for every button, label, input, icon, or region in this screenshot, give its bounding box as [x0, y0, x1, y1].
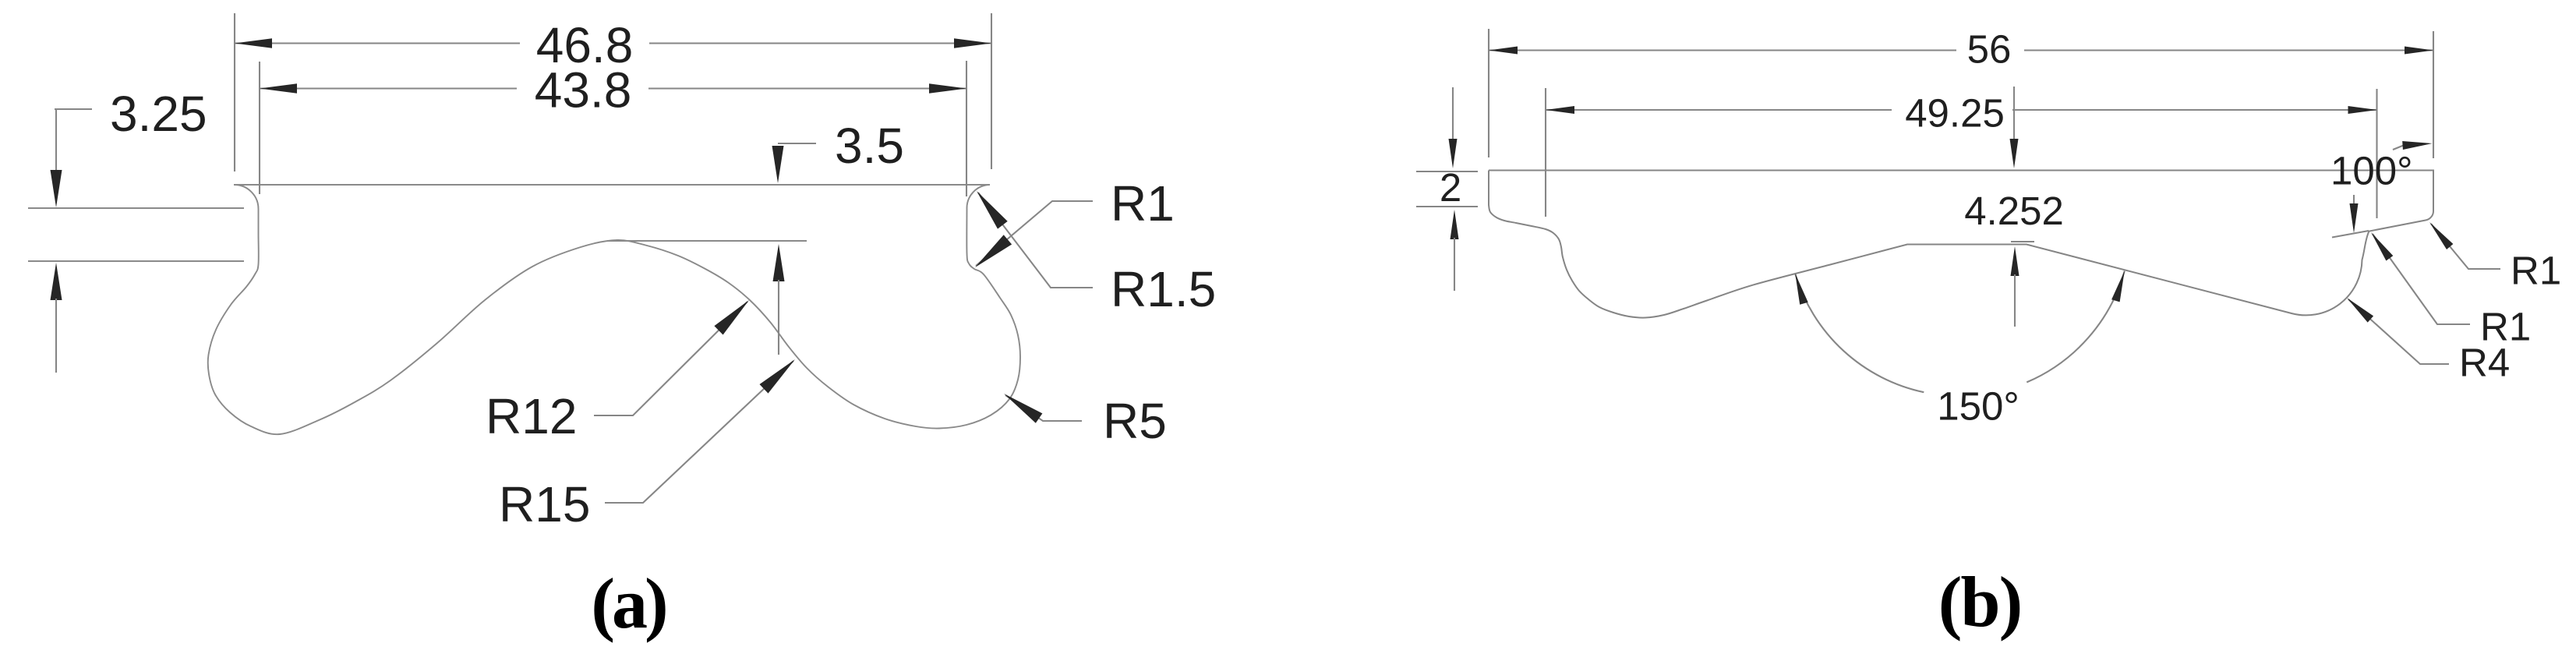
dim 43.8 right extension line	[966, 61, 967, 196]
dim 46.8 dimension line left segment	[235, 42, 520, 44]
dim 2 upper tick line	[1416, 171, 1478, 172]
dim 56 left extension line	[1488, 29, 1489, 157]
leader R12 arrowhead	[714, 300, 749, 335]
leader R1 (a) polyline	[976, 201, 1093, 266]
dim 56 right arrowhead	[2405, 47, 2433, 55]
svg-text:56: 56	[1967, 27, 2012, 72]
svg-text:R1: R1	[2511, 249, 2561, 293]
figure (a): belt tooth profile outline	[208, 185, 1020, 434]
svg-text:2: 2	[1440, 165, 1461, 210]
svg-text:(b): (b)	[1938, 562, 2021, 642]
leader R1.5 (a) polyline	[978, 193, 1093, 288]
leader R5 polyline	[1005, 395, 1082, 421]
leader R1 upper (b) polyline	[2431, 224, 2500, 269]
dim 49.25 left arrowhead	[1546, 106, 1574, 114]
figure (a): tooth crest reference line for 3.5 depth	[607, 240, 807, 242]
leader R12 polyline	[594, 302, 747, 415]
dim 43.8 left arrowhead	[260, 83, 297, 93]
leader R4 arrowhead	[2347, 298, 2373, 323]
dim 4.252 upper stem	[2013, 87, 2015, 142]
dim 43.8 right arrowhead	[929, 83, 966, 93]
leader R1 (a) arrowhead	[975, 235, 1012, 267]
angle 150 arc left segment	[1795, 274, 1924, 392]
angle 100 leader	[2393, 145, 2405, 150]
figure (b): chamfer extension tick	[2332, 231, 2369, 238]
dim 46.8 left extension line	[234, 13, 235, 171]
svg-text:49.25: 49.25	[1905, 91, 2005, 136]
crest flat reference tick (b)	[2011, 241, 2034, 242]
leader R15 polyline	[605, 361, 793, 503]
svg-text:R12: R12	[486, 388, 577, 444]
dim 49.25 right arrowhead	[2348, 106, 2377, 114]
dim 56 dimension line right segment	[2024, 49, 2433, 51]
dim 46.8 dimension line right segment	[649, 42, 991, 44]
dim 3.5 lower arrowhead (up)	[773, 244, 785, 281]
dim 3.25 upper stem	[55, 109, 57, 173]
dim 43.8 left extension line	[259, 62, 260, 194]
dim 46.8 right arrowhead	[954, 38, 991, 48]
svg-text:150°: 150°	[1937, 384, 2019, 429]
dim 56 left arrowhead	[1489, 47, 1518, 55]
dim 3.5 upper arrowhead (down)	[772, 146, 784, 183]
leader R5 arrowhead	[1004, 394, 1042, 423]
dim 56 dimension line left segment	[1489, 49, 1956, 51]
dim 4.252 upper arrowhead (down)	[2010, 139, 2019, 168]
dim 2 upper arrowhead (down)	[1449, 139, 1458, 168]
figure (b): tread rib profile outline	[1489, 171, 2433, 318]
svg-text:4.252: 4.252	[1964, 189, 2064, 233]
dim 49.25 dimension line right segment	[2012, 109, 2377, 111]
svg-text:3.5: 3.5	[835, 118, 904, 174]
chamfer reference down arrow stem (b)	[2353, 195, 2355, 204]
svg-text:100°: 100°	[2330, 149, 2413, 193]
dim 43.8 dimension line left segment	[260, 87, 517, 89]
svg-text:R5: R5	[1103, 393, 1167, 449]
svg-text:R1: R1	[1111, 175, 1175, 232]
leader R1 upper (b) arrowhead	[2429, 222, 2453, 249]
dim 49.25 left extension line	[1545, 88, 1546, 217]
figure (a): backing band top line (section break)	[28, 207, 244, 209]
dim 4.252 lower stem	[2014, 274, 2016, 327]
dim 2 lower tick line	[1416, 206, 1478, 207]
chamfer reference down arrowhead (b)	[2350, 203, 2359, 233]
dim 43.8 dimension line right segment	[648, 87, 966, 89]
dim 49.25 dimension line left segment	[1546, 109, 1892, 111]
dim 3.25 lower arrowhead (up)	[51, 263, 62, 300]
dim 2 lower stem	[1454, 238, 1455, 291]
dim 3.25 lower stem	[55, 299, 57, 373]
dim 56 right extension line	[2433, 31, 2434, 158]
svg-text:R15: R15	[499, 476, 590, 532]
leader R1 lower (b) polyline	[2373, 234, 2470, 324]
svg-text:3.25: 3.25	[110, 86, 207, 142]
leader R15 arrowhead	[760, 359, 796, 394]
figure (a): backing band bottom line (section break)	[28, 260, 244, 262]
angle 150 left arrowhead	[1795, 274, 1808, 305]
svg-text:R1.5: R1.5	[1111, 261, 1216, 317]
angle 150 arc right segment	[2027, 271, 2125, 383]
dim 4.252 lower arrowhead (up)	[2011, 246, 2019, 276]
svg-text:43.8: 43.8	[535, 62, 632, 118]
dim 3.5 lower stem	[778, 280, 779, 355]
dim 46.8 right extension line	[991, 13, 992, 169]
leader R1.5 (a) arrowhead	[977, 191, 1008, 229]
dim 3.25 upper arrowhead (down)	[51, 170, 62, 207]
dim 49.25 right extension line	[2376, 89, 2377, 218]
dim 3.25 leader horizontal	[55, 108, 92, 110]
dim 2 lower arrowhead (up)	[1451, 210, 1459, 239]
svg-text:R4: R4	[2459, 341, 2510, 385]
leader R1 lower (b) arrowhead	[2371, 232, 2393, 261]
leader R4 polyline	[2348, 299, 2449, 364]
svg-text:(a): (a)	[591, 564, 666, 643]
angle 150 right arrowhead	[2111, 271, 2125, 302]
dim 46.8 left arrowhead	[235, 38, 272, 48]
dim 3.5 leader horizontal	[778, 143, 816, 144]
angle 100 arrowhead	[2402, 141, 2432, 150]
dim 2 upper stem	[1452, 87, 1454, 142]
